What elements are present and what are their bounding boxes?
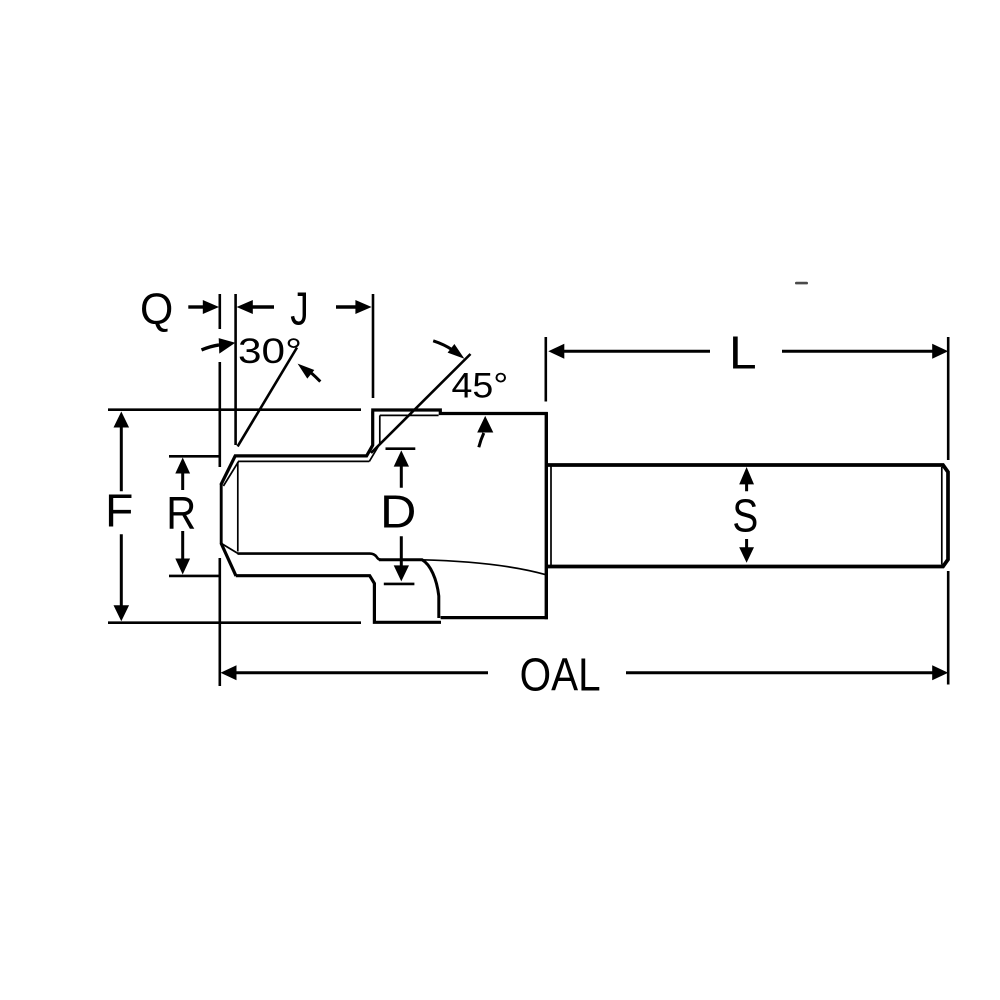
svg-text:30°: 30° [238,331,302,371]
svg-text:F: F [105,485,133,537]
svg-text:J: J [290,283,309,335]
svg-text:45°: 45° [452,366,509,406]
svg-text:Q: Q [140,285,173,334]
svg-text:OAL: OAL [520,649,601,701]
svg-text:S: S [732,490,758,542]
svg-text:L: L [729,327,757,379]
svg-text:R: R [166,487,196,539]
svg-text:D: D [380,486,416,538]
